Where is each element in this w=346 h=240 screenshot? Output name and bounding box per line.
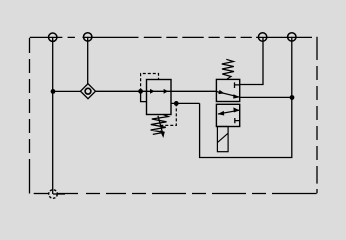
valve spring (zigzag on top) bbox=[222, 59, 234, 79]
wire: port2 down to coupling bbox=[87, 37, 89, 84]
port 3 (top-right circle) bbox=[258, 33, 266, 41]
valve position box 2 (bottom) bbox=[216, 104, 239, 126]
port 1 (top-left circle) bbox=[49, 33, 57, 41]
enclosure bottom border (dashed) bbox=[34, 193, 317, 195]
pilot line (dashed) sense tap down to spring bbox=[159, 103, 176, 125]
valve actuator stem (narrow box with diagonal) bbox=[217, 127, 228, 152]
wire: coupling to regulator bbox=[96, 90, 147, 92]
junction: loop meets valve outlet wire bbox=[290, 95, 295, 100]
valve box2 flow path (diagonal with arrows) bbox=[218, 107, 240, 115]
pilot line (dashed) junction up over to regulator top bbox=[141, 74, 159, 92]
pressure regulator body bbox=[147, 80, 172, 115]
regulator adjustment arrow bbox=[158, 116, 165, 138]
valve box1 flow path (diagonal with arrows) bbox=[216, 90, 239, 99]
valve box2 blocked port (T) bbox=[235, 118, 240, 123]
junction: regulator pilot tap bbox=[138, 89, 143, 94]
wire: valve outlet to loop junction bbox=[240, 96, 292, 98]
port 4 (top-far-right circle) bbox=[288, 33, 296, 41]
enclosure right border (dashed) bbox=[316, 37, 318, 194]
port 5 (bottom dashed circle) bbox=[49, 190, 58, 199]
flow arrow 2 bbox=[164, 89, 169, 94]
enclosure top border (dashed) bbox=[30, 36, 312, 38]
pilot line (solid) junction down into regulator left side bbox=[141, 91, 147, 101]
regulator outlet side port to loop bbox=[171, 102, 200, 104]
wire: junction to coupling bbox=[53, 90, 81, 92]
wire: loop down, across bottom, up to valve port line bbox=[200, 37, 292, 158]
regulator flow path through body bbox=[147, 90, 172, 92]
junction: main line tee at left riser bbox=[51, 89, 56, 94]
wire: valve top port right then up to port 3 bbox=[240, 37, 263, 85]
wire: port1 down to bottom port bbox=[52, 37, 54, 194]
port 2 (circle above coupling) bbox=[84, 33, 92, 41]
valve position box 1 (top, active) bbox=[216, 79, 239, 101]
regulator spring (zigzag below body) bbox=[151, 115, 169, 135]
wire: bottom border stub into port 5 bbox=[53, 193, 65, 195]
quick coupling (diamond with circle) bbox=[81, 84, 96, 99]
junction: pilot sense tap bbox=[174, 101, 179, 106]
wire: regulator to valve inlet bbox=[171, 90, 216, 92]
enclosure left border (dashed) bbox=[29, 38, 31, 194]
valve box1 blocked port (T) bbox=[235, 82, 240, 88]
flow arrow 1 bbox=[150, 89, 155, 94]
